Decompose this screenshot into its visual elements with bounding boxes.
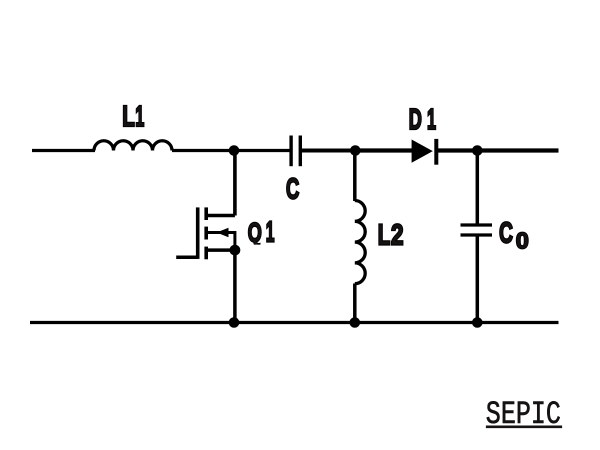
- title underline: [486, 425, 562, 428]
- diode D1 (cathode bar): [434, 139, 438, 165]
- wire: node C down to C0 top plate: [476, 151, 480, 225]
- node: Q1 source/body junction dot: [230, 245, 241, 256]
- Q1 gate lead: [176, 255, 198, 259]
- svg-text:L: L: [122, 101, 134, 133]
- wire: top rail input segment (left end to L1): [32, 149, 95, 152]
- wire: L1 to node A: [172, 149, 290, 152]
- svg-text:L: L: [378, 219, 390, 251]
- svg-text:1: 1: [427, 103, 436, 135]
- inductor L2 (vertical, 4 humps): [355, 201, 365, 284]
- svg-text:C: C: [286, 173, 299, 205]
- wire: L2 bottom to bottom rail: [353, 284, 357, 323]
- svg-text:0: 0: [516, 228, 529, 254]
- node B (junction of C, L2, D1): [350, 145, 361, 156]
- label L1: [122, 100, 144, 133]
- Q1 body lead with arrow line: [208, 233, 235, 251]
- wire: node B down to L2 top: [353, 151, 357, 202]
- capacitor C (left plate): [289, 136, 292, 167]
- transistor Q1 (N-channel MOSFET): [176, 207, 235, 259]
- node: bottom rail junction at Q1 source: [229, 317, 240, 328]
- svg-text:2: 2: [391, 220, 404, 251]
- wire: bottom rail (ground return): [30, 321, 559, 324]
- Q1 drain lead: [206, 214, 235, 218]
- label L2: [378, 219, 404, 251]
- svg-text:1: 1: [135, 100, 144, 132]
- wire: D1 cathode to node C: [437, 148, 478, 152]
- inductor L1 (4 humps): [94, 141, 172, 151]
- node A (junction of L1, C, Q1 drain): [229, 145, 240, 156]
- diode D1 (anode triangle): [412, 140, 433, 163]
- wire: Q1 source down to bottom rail: [233, 250, 237, 322]
- wire: node C to output (right end of top rail): [477, 148, 559, 152]
- wire: C to node B: [302, 149, 356, 153]
- node C (junction of D1, C0, output): [472, 145, 483, 156]
- wire: node B to D1 anode: [355, 148, 412, 152]
- Q1 channel segment (drain side): [204, 207, 208, 220]
- svg-text:Q: Q: [248, 217, 262, 248]
- wire: C0 bottom plate to bottom rail: [476, 236, 480, 323]
- svg-text:C: C: [499, 218, 513, 250]
- node: bottom rail junction at C0: [472, 317, 483, 328]
- svg-text:1: 1: [266, 215, 275, 247]
- wire: Q1 drain up to node A: [233, 151, 237, 216]
- capacitor C0 (bottom plate): [461, 233, 493, 236]
- label D1: [409, 103, 436, 136]
- Q1 source lead: [206, 248, 235, 252]
- Q1 channel segment (body, middle): [204, 227, 208, 240]
- node: bottom rail junction at L2: [350, 317, 361, 328]
- capacitor C0 (top plate): [461, 223, 493, 226]
- Q1 channel segment (source side): [204, 247, 208, 260]
- Q1 gate bar: [196, 207, 200, 259]
- capacitor C (right plate): [299, 136, 302, 167]
- Q1 body arrowhead (points left): [217, 228, 229, 237]
- svg-text:D: D: [409, 104, 422, 136]
